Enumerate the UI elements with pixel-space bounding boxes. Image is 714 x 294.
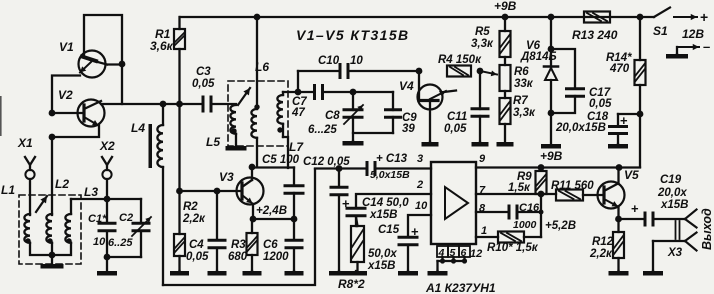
label R2 [183, 201, 198, 213]
node V1 collector junction [119, 61, 126, 68]
label R5 [475, 26, 490, 38]
wire +9V lower rail [476, 166, 640, 168]
label V6 [526, 40, 541, 52]
node L5 phase dot [231, 128, 236, 133]
node V3 emitter junction [250, 216, 257, 223]
svg-text:0,05: 0,05 [444, 123, 467, 135]
label output [700, 208, 714, 250]
label R12 value [589, 248, 613, 260]
label C19 value [657, 187, 687, 199]
svg-text:C6: C6 [263, 239, 278, 251]
node L7 phase dot [277, 127, 282, 132]
wire R11 to V5 [583, 194, 604, 196]
svg-text:V2: V2 [58, 88, 73, 102]
label X3 [667, 247, 683, 259]
label R10 value [487, 242, 539, 254]
wire R10 to node [524, 236, 541, 238]
svg-text:L6: L6 [255, 60, 269, 74]
wire L1 L2 L3 bottoms [30, 243, 71, 255]
ground R7 [497, 124, 514, 147]
inductor L2 [46, 214, 52, 243]
svg-text:+: + [411, 224, 419, 239]
label C6 value [263, 251, 289, 263]
label R11 value [551, 180, 594, 192]
wire R4 to R6 wiper [480, 70, 497, 76]
label C3 value [192, 78, 215, 90]
label C12 value [303, 156, 350, 168]
label R7 [513, 95, 528, 107]
wire C1 C2 bottoms [107, 256, 141, 258]
wire bus to C12 C13 pin3 row [315, 167, 431, 169]
wire X3 lower to ground [652, 241, 654, 271]
label R2 value [182, 213, 206, 225]
svg-text:X3: X3 [667, 247, 683, 259]
resistor R13 [584, 12, 610, 23]
wire C19 to X3 [655, 218, 685, 220]
svg-text:C11: C11 [447, 111, 467, 123]
ground C15 [398, 271, 418, 276]
label X1 [17, 136, 33, 150]
label L5 [206, 135, 220, 149]
wire pin1 row [476, 236, 498, 238]
svg-text:1000: 1000 [513, 219, 537, 231]
node C4 junction [214, 188, 221, 195]
svg-text:C12 0,05: C12 0,05 [303, 156, 350, 168]
transistor V1 [79, 51, 123, 78]
capacitor C7 [313, 84, 324, 100]
shield dashed box L1 L2 [19, 195, 81, 264]
label C5 value [262, 154, 300, 166]
svg-text:0,05: 0,05 [589, 98, 612, 110]
svg-text:33к: 33к [514, 78, 534, 90]
svg-text:10: 10 [350, 55, 363, 67]
capacitor C11 [471, 71, 490, 142]
label +9V top [494, 0, 517, 13]
wire L7 to C7 [283, 91, 313, 93]
transistor V5 [598, 168, 625, 220]
capacitor C13 [366, 161, 377, 176]
wire V1 collector loop [84, 15, 122, 104]
ground C18 [608, 144, 628, 149]
ground R12 [609, 271, 629, 276]
node V6 bottom junction [548, 110, 555, 117]
node R9 bottom junction [538, 191, 545, 198]
label S1 [653, 24, 668, 38]
wire bus V2 to L2 [51, 137, 53, 215]
label C7 value [291, 107, 305, 119]
svg-text:L1: L1 [1, 183, 15, 197]
resistor R10 [498, 232, 524, 243]
svg-text:20,0х15В: 20,0х15В [555, 122, 606, 134]
svg-text:0,05: 0,05 [192, 78, 215, 90]
label V2 [58, 88, 73, 102]
svg-text:C3: C3 [196, 66, 211, 78]
svg-text:C2: C2 [119, 212, 133, 224]
node L3 phase dot [66, 238, 71, 243]
label C18 value [555, 122, 606, 134]
inductor L6 [251, 17, 257, 167]
label L2 [55, 177, 69, 191]
svg-text:12: 12 [470, 248, 482, 260]
resistor R9 [536, 171, 547, 194]
svg-text:3: 3 [417, 153, 423, 165]
svg-text:X1: X1 [17, 136, 33, 150]
svg-text:+: + [631, 201, 639, 216]
ground V4 [422, 142, 439, 147]
connector X3 [653, 210, 697, 251]
label V6 type [520, 51, 557, 63]
node C1 C2 junction [104, 254, 111, 261]
resistor R4 [447, 66, 471, 77]
svg-text:1,5к: 1,5к [508, 182, 531, 194]
label R14 [606, 52, 632, 64]
switch S1 [654, 8, 670, 18]
node L6 phase dot [254, 104, 259, 109]
ground L1 L2 L3 [41, 255, 64, 269]
node V6 C17 top junction [548, 46, 555, 53]
svg-text:R11 560: R11 560 [551, 180, 594, 192]
node V2 base junction [49, 110, 56, 117]
svg-text:V5: V5 [624, 168, 639, 182]
label C15 value [368, 248, 397, 260]
label C15 [378, 224, 400, 236]
svg-text:2,2к: 2,2к [182, 213, 206, 225]
label C8 [325, 110, 340, 122]
capacitor C2 trimmer [132, 199, 152, 257]
svg-text:0,05: 0,05 [186, 251, 209, 263]
svg-text:R5: R5 [475, 26, 490, 38]
label V4 [399, 79, 414, 93]
wire R6 R7 [504, 91, 506, 98]
svg-text:10: 10 [93, 236, 106, 248]
svg-text:х15В: х15В [367, 260, 396, 272]
ground R8 [345, 271, 367, 276]
svg-text:C19: C19 [660, 174, 682, 186]
label R5 value [471, 38, 494, 50]
svg-text:6..25: 6..25 [108, 237, 133, 249]
node R9 top junction [538, 164, 545, 171]
svg-text:+9В: +9В [540, 149, 563, 163]
resistor R1 [174, 17, 185, 104]
svg-text:X2: X2 [99, 139, 115, 153]
resistor R7 [500, 98, 511, 124]
wire battery minus [677, 44, 699, 54]
svg-text:10: 10 [415, 200, 428, 212]
svg-text:+: + [700, 9, 708, 25]
svg-text:R2: R2 [183, 201, 198, 213]
transistor V4 [418, 71, 457, 142]
label battery plus [700, 9, 708, 25]
label R1 value [150, 39, 174, 53]
svg-text:R4 150к: R4 150к [438, 54, 482, 66]
label R7 value [513, 107, 536, 119]
node V2 emitter junction [49, 134, 56, 141]
svg-text:Д814Б: Д814Б [520, 51, 557, 63]
ground R3 [243, 271, 262, 276]
label X2 [99, 139, 115, 153]
label pin 8 [479, 203, 486, 215]
node X2 junction [104, 196, 111, 203]
wire V5 emitter row [619, 218, 644, 220]
ground C11 [472, 142, 489, 147]
svg-text:L4: L4 [131, 121, 145, 135]
label battery voltage [682, 27, 704, 41]
node C12 junction [336, 165, 343, 172]
capacitor C5 [284, 168, 305, 220]
svg-text:L2: L2 [55, 177, 69, 191]
svg-text:5,0х15В: 5,0х15В [370, 169, 410, 181]
svg-text:+2,4В: +2,4В [256, 205, 287, 217]
node R1 bottom junction [176, 101, 183, 108]
wire pin2 to C14 [356, 194, 431, 207]
wire V2 base [52, 112, 84, 114]
label C2 value [108, 237, 133, 249]
label C6 [263, 239, 278, 251]
node C8 top junction [350, 89, 357, 96]
svg-text:C10: C10 [318, 55, 340, 67]
node V3 collector junction [249, 164, 256, 171]
resistor R8 [351, 217, 364, 271]
zener diode V6 [544, 17, 558, 113]
svg-text:S1: S1 [653, 24, 668, 38]
capacitor C1 [98, 199, 117, 257]
label C17 value [589, 98, 612, 110]
svg-text:+ C13: + C13 [376, 153, 408, 165]
svg-text:680: 680 [228, 251, 248, 263]
transistor V2 [78, 100, 105, 127]
label C14 [362, 197, 409, 209]
resistor R12 [613, 219, 624, 271]
connector X2 antenna [102, 157, 112, 199]
label C13 [376, 153, 408, 165]
ground C6 [285, 271, 304, 276]
svg-text:R10* 1,5к: R10* 1,5к [487, 242, 539, 254]
svg-text:R6: R6 [514, 66, 529, 78]
svg-text:3,3к: 3,3к [513, 107, 536, 119]
svg-text:1200: 1200 [263, 251, 289, 263]
label C9 value [402, 123, 415, 135]
wire V3 collector row [252, 166, 294, 168]
label pin 7 [479, 185, 486, 197]
node C7 wire junction [295, 89, 302, 96]
node V5 emitter junction [615, 216, 622, 223]
label C10 value [350, 55, 363, 67]
connector X1 antenna [25, 157, 35, 215]
wire pin7 row [476, 193, 556, 195]
svg-text:C4: C4 [189, 239, 204, 251]
ground C4 [208, 271, 227, 276]
capacitor C14 electrolytic [342, 196, 367, 226]
resistor R11 [556, 190, 583, 201]
label C15 value2 [367, 260, 396, 272]
ground C12 [329, 271, 349, 276]
wire C8 to C9 [353, 91, 393, 93]
label R3 [231, 239, 246, 251]
label L6 [255, 60, 269, 74]
svg-text:L5: L5 [206, 135, 220, 149]
label R12 [592, 236, 614, 248]
pins 4 5 6 of A1 [437, 246, 470, 271]
svg-text:1: 1 [481, 225, 487, 237]
label C9 [402, 112, 417, 124]
svg-text:х15В: х15В [369, 209, 398, 221]
capacitor C15 electrolytic [398, 224, 420, 271]
capacitor C4 [208, 191, 227, 271]
svg-text:3,6к: 3,6к [150, 39, 174, 53]
label C11 value [444, 123, 467, 135]
label +5.2V [545, 220, 576, 232]
wire +9V top rail [180, 16, 654, 18]
resistor R6 potentiometer [500, 65, 511, 91]
label R14 value [609, 63, 630, 75]
resistor R5 [500, 17, 511, 57]
wire C9 bottom to C8 [353, 132, 393, 134]
wire R5 R6 [504, 57, 506, 65]
label C4 [189, 239, 204, 251]
inductor L1 [24, 214, 30, 243]
wire pin10 to C15 [408, 215, 431, 236]
svg-text:470: 470 [609, 63, 630, 75]
ground A1 [428, 271, 448, 276]
label pin 3 [417, 153, 423, 165]
svg-text:V3: V3 [219, 170, 234, 184]
resistor R2 [174, 191, 185, 271]
label pin 10 [415, 200, 428, 212]
label R1 [155, 27, 171, 41]
node V4 base junction [416, 68, 423, 75]
wire X2 node [71, 198, 141, 200]
svg-text:3,3к: 3,3к [471, 38, 494, 50]
resistor R14 [635, 17, 646, 167]
label L7 [289, 140, 304, 154]
label R9 [517, 171, 532, 183]
capacitor C6 [285, 219, 304, 271]
node junction S1/R14 top rail [637, 14, 644, 21]
node V5 collector junction [616, 164, 623, 171]
capacitor C9 [384, 92, 402, 133]
label L4 [131, 121, 145, 135]
svg-text:+: + [620, 113, 628, 128]
label R6 [514, 66, 529, 78]
label A1 [425, 281, 496, 294]
svg-text:R13 240: R13 240 [572, 28, 618, 42]
svg-text:R12: R12 [592, 236, 614, 248]
label R3 value [228, 251, 248, 263]
label +2.4V [256, 205, 287, 217]
label C4 value [186, 251, 209, 263]
tuning arrow L5 L6 [238, 88, 250, 105]
svg-text:L3: L3 [84, 185, 98, 199]
ground R2 [170, 271, 189, 276]
shield dashed box L5 L6 L7 [228, 81, 288, 146]
ground C1 C2 [97, 257, 117, 276]
label V5 [624, 168, 639, 182]
capacitor C3 [202, 96, 213, 113]
wire riser C10 node [297, 71, 299, 92]
wire V3 base [180, 190, 243, 192]
resistor R3 [247, 219, 258, 271]
tuning arrow L1 L2 [36, 196, 47, 212]
svg-text:V1: V1 [59, 40, 74, 54]
transistor V3 [237, 168, 264, 219]
ground L5 [226, 146, 247, 151]
svg-text:50,0х: 50,0х [368, 248, 397, 260]
label C16 [519, 202, 540, 214]
wire bottom bus [163, 169, 315, 285]
svg-text:R3: R3 [231, 239, 246, 251]
label R13 value [572, 28, 618, 42]
node L1 phase dot [25, 238, 30, 243]
op-amp A1 К237УН1 [431, 162, 476, 244]
page edge artifact [0, 96, 2, 136]
svg-text:+: + [342, 196, 350, 211]
label L3 [84, 185, 98, 199]
label R6 value [514, 78, 534, 90]
node C5 bottom junction [291, 216, 298, 223]
wire C10 row [298, 70, 419, 72]
wire V1 emitter to bus [52, 76, 80, 114]
svg-text:C15: C15 [378, 224, 400, 236]
ground X3 [643, 271, 663, 276]
label V1 [59, 40, 74, 54]
label C10 [318, 55, 340, 67]
node R4 C11 junction [477, 68, 484, 75]
label V3 [219, 170, 234, 184]
label C2 [119, 212, 133, 224]
label C13 value [370, 169, 410, 181]
label C3 [196, 66, 211, 78]
label pin 12 [470, 248, 482, 260]
capacitor C18 electrolytic [608, 113, 640, 144]
svg-text:C14 50,0: C14 50,0 [362, 197, 409, 209]
label C19 value2 [660, 199, 689, 211]
capacitor C16 [508, 205, 519, 220]
label C19 [660, 174, 682, 186]
label C14 value [369, 209, 398, 221]
label C7 [292, 96, 307, 108]
node C16 junction [539, 210, 544, 215]
label R8 value [338, 277, 365, 291]
svg-text:L7: L7 [289, 140, 304, 154]
capacitor C8 trimmer [343, 92, 364, 141]
label V1-V5 types [296, 27, 410, 43]
inductor L5 [213, 104, 236, 146]
svg-text:47: 47 [291, 107, 305, 119]
label pin 2 [416, 179, 423, 191]
wire pin8 row [476, 211, 508, 213]
node L2 phase dot [47, 238, 52, 243]
label C18 [587, 111, 609, 123]
wire C7 to C8 [325, 91, 354, 93]
inductor L7 [277, 92, 288, 168]
wire C16 to node [518, 211, 541, 213]
svg-text:39: 39 [402, 123, 415, 135]
svg-text:9: 9 [479, 153, 486, 165]
node R14 C18 junction [637, 111, 644, 118]
node junction R5 top rail [502, 14, 509, 21]
label battery minus [703, 39, 710, 54]
node junction L6 top rail [254, 14, 261, 21]
node junction V6 top rail [548, 14, 555, 21]
label R9 value [508, 182, 531, 194]
capacitor C12 [330, 169, 349, 272]
label C1 value [93, 236, 106, 248]
wire R1 node to V3 base [178, 104, 180, 191]
ground battery minus [666, 54, 688, 59]
svg-text:+5,2В: +5,2В [545, 220, 576, 232]
svg-text:C8: C8 [325, 110, 340, 122]
capacitor C17 [551, 49, 585, 113]
